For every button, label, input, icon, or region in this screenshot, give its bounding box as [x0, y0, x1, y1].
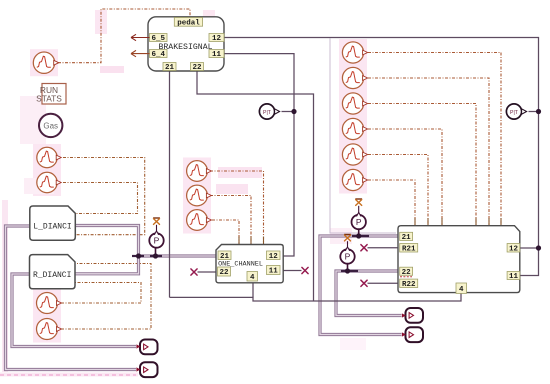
wire dashed pedal signal from SG1 to BRAKESIGNAL pedal — [58, 9, 190, 63]
svg-text:6_4: 6_4 — [151, 51, 165, 59]
port label R21 — [400, 244, 418, 254]
junction bars — [132, 236, 369, 271]
wire dashed M3 to ONE_CHANNEL top port 1 — [212, 220, 239, 245]
wire stub right block port R22 terminator — [368, 282, 399, 284]
wire faint branch from brake line down to port 21 wire — [330, 38, 396, 233]
terminator X at R22 — [361, 280, 367, 286]
svg-text:R_DIANCI: R_DIANCI — [33, 271, 71, 280]
svg-text:R21: R21 — [402, 245, 416, 253]
input arrow 6_5 — [131, 34, 150, 40]
port label 22 (BRAKESIGNAL) — [191, 63, 204, 73]
wire dashed M2 to ONE_CHANNEL top port 2 — [210, 196, 251, 245]
svg-text:P: P — [345, 252, 351, 262]
component Gas — [39, 114, 62, 137]
signal source SG5 — [37, 319, 62, 340]
sensor P|T 2 — [506, 104, 526, 119]
wire stub right block port R21 terminator — [368, 247, 399, 249]
svg-text:12: 12 — [509, 245, 519, 253]
scope 3 — [136, 340, 157, 355]
svg-text:P: P — [356, 217, 362, 227]
wire P|T1 tap — [282, 111, 295, 113]
port stubs right block top — [415, 218, 501, 226]
svg-text:21: 21 — [220, 253, 230, 261]
flag above P1 — [355, 199, 362, 205]
block L_DIANCI — [30, 206, 76, 240]
port label 22 (right block) — [400, 267, 413, 277]
signal source C1 — [342, 42, 367, 63]
block BRAKESIGNAL — [148, 17, 224, 71]
svg-text:STATS: STATS — [36, 94, 62, 104]
wire thick right block port 22 to scope1 — [336, 271, 402, 316]
port label 11 (ONE_CHANNEL) — [267, 266, 281, 276]
signal source SG4 — [37, 293, 62, 314]
pressure sensor P0 — [149, 231, 163, 248]
port label 12 (ONE_CHANNEL) — [267, 251, 281, 261]
port label 4 (ONE_CHANNEL) — [247, 272, 258, 282]
scope 1 — [402, 308, 423, 323]
wire thick right block port 21 to scope2 — [320, 236, 402, 335]
wire dashed C4 to right block top port c — [368, 129, 442, 226]
wire dashed SG2 to L_DIANCI lower port — [63, 158, 145, 235]
pressure sensor P1 — [352, 212, 366, 229]
marker stem P1 — [358, 206, 360, 213]
wire P1 drop to junction — [358, 229, 360, 236]
wire dashed SG3 to L_DIANCI upper port — [63, 183, 138, 214]
wire P|T2 tap — [529, 111, 539, 113]
wire dashed C5 to right block top port b — [368, 155, 428, 226]
svg-text:11: 11 — [509, 273, 519, 281]
port label 12 (BRAKESIGNAL) — [209, 34, 224, 44]
svg-text:22: 22 — [219, 269, 229, 277]
wire ONE_CHANNEL port 4 drop — [252, 283, 254, 298]
wire dashed SG5 to R_DIANCI upper port — [61, 264, 151, 330]
svg-text:21: 21 — [165, 64, 175, 72]
port label 21 (ONE_CHANNEL) — [218, 251, 231, 261]
port stubs ONE_CHANNEL top — [239, 237, 264, 245]
block R_DIANCI — [30, 255, 76, 289]
svg-text:P|T: P|T — [510, 110, 519, 116]
svg-text:4: 4 — [250, 274, 255, 282]
signal source M1 — [187, 161, 212, 182]
ghost pink dashed line bottom left — [0, 374, 136, 376]
block right valve unit — [398, 226, 520, 293]
wire thick L_DIANCI left port to scope4 — [6, 226, 137, 370]
port label R22 — [400, 279, 418, 289]
red marks under label 22 (right block) — [400, 276, 412, 278]
port label 22 (ONE_CHANNEL) — [218, 267, 231, 277]
wire BRAKESIGNAL port 22 down and across — [197, 71, 314, 301]
svg-text:22: 22 — [402, 269, 412, 277]
wire dashed C1 to right block top port f — [368, 53, 501, 226]
svg-text:12: 12 — [269, 253, 279, 261]
marker stem P0 — [156, 225, 158, 231]
flag above P0 — [153, 218, 160, 224]
flag on wire above P2 — [344, 235, 351, 241]
wire dashed C2 to right block top port e — [368, 78, 489, 226]
signal source C2 — [342, 67, 367, 88]
terminator X at R21 — [361, 245, 367, 251]
wire dashed M1 to ONE_CHANNEL top port 3 — [210, 171, 264, 245]
wire P0 drop to junction — [155, 248, 157, 256]
signal source SG1 — [33, 52, 58, 73]
scope 4 — [136, 362, 157, 377]
svg-text:21: 21 — [402, 234, 412, 242]
wire thick junction to ONE_CHANNEL port 21 — [139, 254, 217, 257]
wire P2 drop to junction — [347, 264, 349, 271]
wire stub ONE_CHANNEL port 22 terminator — [198, 271, 217, 273]
svg-text:Gas: Gas — [43, 121, 58, 130]
input arrow 6_4 — [131, 50, 150, 56]
port label 6_5 — [150, 34, 168, 44]
port label 11 (right block) — [507, 272, 520, 282]
svg-text:6_5: 6_5 — [151, 35, 165, 43]
terminator X at ONE_CHANNEL 11 — [302, 267, 308, 273]
block ONE_CHANNEL — [216, 245, 283, 283]
wire dashed C6 to right block top port a — [368, 180, 415, 226]
wire long bottom net to right block port 4 — [170, 293, 462, 301]
port label 21 (BRAKESIGNAL) — [163, 63, 176, 73]
wire right block port 11 loop — [520, 248, 539, 276]
ghost pink smudge field — [0, 10, 367, 377]
wire stub ONE_CHANNEL port 11 terminator — [283, 270, 301, 272]
svg-text:P: P — [154, 236, 160, 246]
wire dashed C3 to right block top port d — [368, 104, 476, 226]
signal source SG3 — [37, 172, 61, 192]
port label pedal — [174, 18, 202, 28]
svg-text:L_DIANCI: L_DIANCI — [33, 223, 71, 232]
svg-text:pedal: pedal — [177, 20, 200, 28]
svg-text:R22: R22 — [402, 281, 416, 289]
wire BRAKESIGNAL port 21 down — [169, 71, 171, 297]
signal source SG2 — [37, 147, 61, 167]
svg-text:12: 12 — [212, 35, 222, 43]
terminator X at ONE_CHANNEL 22 — [191, 269, 197, 275]
wire BRAKESIGNAL port 12 to right block ports 12/11 — [224, 38, 539, 249]
marker stem P2 — [347, 241, 349, 247]
signal source C6 — [342, 169, 367, 190]
wire thick R_DIANCI left port to scope3 — [12, 274, 136, 347]
wire BRAKESIGNAL port 11 to ONE_CHANNEL port 12 — [224, 54, 294, 256]
scope 2 — [402, 327, 423, 342]
svg-text:4: 4 — [459, 286, 464, 294]
wire dashed SG4 to R_DIANCI lower port — [61, 283, 141, 304]
wire thick L_DIANCI mid to R_DIANCI mid vertical — [75, 226, 138, 274]
port label 11 (BRAKESIGNAL) — [209, 50, 224, 60]
port label 12 (right block) — [507, 244, 520, 254]
signal source C5 — [342, 144, 367, 165]
pressure sensor P2 — [340, 247, 354, 264]
block RUN STATS — [36, 84, 66, 105]
signal source C4 — [342, 118, 367, 139]
svg-text:22: 22 — [192, 64, 202, 72]
svg-text:11: 11 — [269, 268, 279, 276]
signal source M2 — [187, 185, 212, 206]
sensor P|T 1 — [259, 104, 279, 119]
port label 6_4 — [150, 50, 168, 60]
svg-text:11: 11 — [212, 51, 222, 59]
signal source C3 — [342, 93, 367, 114]
signal source M3 — [187, 210, 212, 231]
port label 21 (right block) — [400, 232, 413, 242]
port label 4 (right block) — [456, 283, 467, 294]
svg-text:P|T: P|T — [263, 110, 272, 116]
